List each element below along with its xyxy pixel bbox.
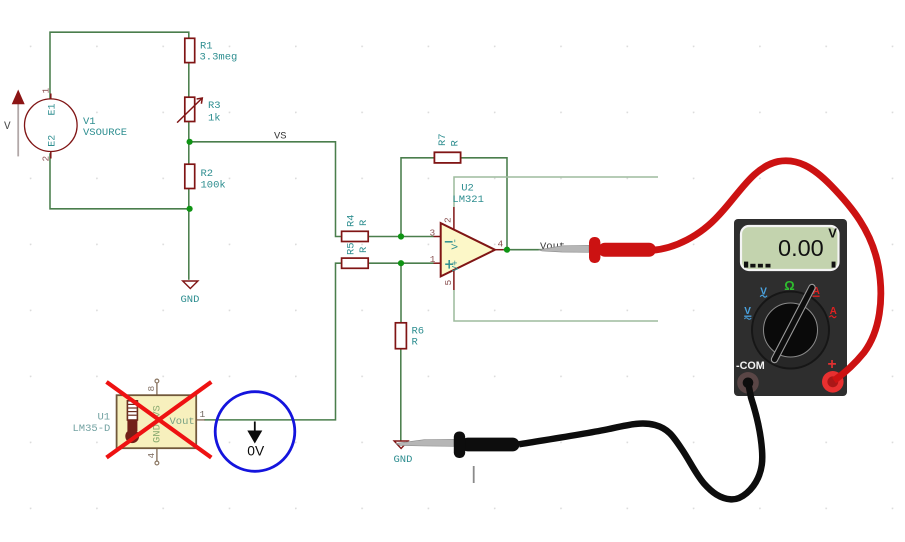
- wire R5 right to op-amp pin 1: [368, 262, 433, 264]
- svg-text:R4: R4: [346, 214, 358, 227]
- wire VS node to R4 left: [190, 142, 342, 237]
- svg-text:V: V: [4, 121, 11, 133]
- junction VS node: [187, 139, 193, 145]
- ground GND2: [394, 441, 413, 466]
- wire R3 to R2 through VS node: [188, 122, 190, 165]
- svg-text:2: 2: [41, 156, 52, 162]
- multimeter display: [741, 226, 839, 270]
- voltage source V1: [25, 88, 128, 162]
- svg-text:V-: V-: [450, 238, 461, 249]
- svg-text:5: 5: [443, 280, 454, 286]
- svg-text:R7: R7: [437, 133, 449, 146]
- svg-text:V+: V+: [450, 260, 461, 272]
- probe black: [396, 432, 520, 459]
- resistor R6: [395, 323, 424, 349]
- svg-text:2: 2: [443, 217, 454, 223]
- svg-text:U1: U1: [98, 412, 111, 424]
- svg-text:LM35-D: LM35-D: [73, 423, 111, 435]
- wire feedback node up to R7 left: [401, 158, 435, 237]
- svg-text:E1: E1: [48, 103, 59, 115]
- wire R2 bottom to GND: [188, 189, 190, 280]
- svg-text:R: R: [358, 246, 370, 253]
- temperature sensor U1 LM35-D: [73, 379, 206, 465]
- svg-text:4: 4: [146, 453, 157, 459]
- multimeter: [734, 219, 847, 396]
- svg-text:E2: E2: [48, 135, 59, 147]
- svg-text:1: 1: [430, 254, 436, 265]
- resistor R3 (variable): [177, 97, 221, 124]
- wire pin1 node down to R6 top: [400, 263, 402, 323]
- wire op-amp output to red probe: [503, 249, 548, 251]
- svg-text:V1: V1: [83, 116, 96, 128]
- svg-text:3.3meg: 3.3meg: [200, 52, 238, 64]
- resistor R4: [342, 214, 370, 241]
- svg-text:U2: U2: [461, 182, 474, 194]
- cursor artifact: [473, 466, 475, 483]
- svg-text:1: 1: [41, 88, 52, 94]
- wire R7 right down to output node: [460, 158, 507, 250]
- multimeter dial: [752, 292, 829, 369]
- wire top from V1 pin1 to R1: [50, 32, 189, 100]
- op-amp U2: [430, 182, 504, 290]
- voltage probe arrow V: [4, 90, 25, 157]
- svg-text:R3: R3: [208, 100, 221, 112]
- junction R2 bottom node: [187, 206, 193, 212]
- svg-text:VS: VS: [274, 131, 287, 143]
- svg-text:R: R: [449, 140, 461, 147]
- svg-text:GND: GND: [181, 294, 200, 306]
- multimeter red lead wire: [652, 161, 881, 381]
- junction output node: [504, 247, 510, 253]
- resistor R7: [434, 133, 461, 163]
- wire bottom from V1 pin2 to R2 bottom node: [50, 153, 190, 209]
- svg-text:-COM: -COM: [736, 360, 765, 372]
- svg-text:LM321: LM321: [452, 194, 484, 206]
- svg-text:4: 4: [498, 239, 504, 250]
- svg-text:R: R: [412, 336, 419, 348]
- svg-text:GND: GND: [394, 454, 413, 466]
- probe circle 0V: [215, 392, 295, 472]
- svg-text:R2: R2: [201, 168, 214, 180]
- wire R4 right to op-amp pin 3: [368, 236, 433, 238]
- resistor R2: [185, 164, 226, 191]
- svg-text:1k: 1k: [208, 113, 221, 125]
- wire faded supply bottom: [454, 290, 658, 321]
- ground GND1: [181, 281, 200, 306]
- svg-text:V: V: [744, 306, 751, 317]
- svg-text:R: R: [358, 219, 370, 226]
- wire LM35 Vout to R5 left: [204, 263, 341, 420]
- svg-text:1: 1: [200, 409, 206, 420]
- svg-text:+: +: [828, 356, 837, 373]
- resistor R1: [185, 38, 238, 63]
- wire faded supply top: [454, 177, 658, 207]
- resistor R5: [342, 242, 370, 268]
- multimeter black lead wire: [519, 385, 762, 499]
- svg-text:100k: 100k: [201, 179, 226, 191]
- wire R1 to R3: [188, 63, 190, 98]
- svg-text:V: V: [828, 226, 837, 241]
- wire R6 bottom to GND: [400, 349, 402, 441]
- svg-text:0.00: 0.00: [778, 235, 824, 261]
- probe red: [539, 237, 656, 263]
- svg-text:VSOURCE: VSOURCE: [83, 127, 127, 139]
- svg-text:3: 3: [430, 227, 436, 238]
- red X cross over U1: [107, 382, 212, 458]
- svg-text:0V: 0V: [247, 443, 265, 458]
- svg-text:Vout: Vout: [170, 416, 195, 428]
- junction op-amp pin3 node: [398, 233, 404, 239]
- svg-text:8: 8: [146, 386, 157, 392]
- junction op-amp pin1 node: [398, 260, 404, 266]
- svg-text:R5: R5: [346, 242, 358, 255]
